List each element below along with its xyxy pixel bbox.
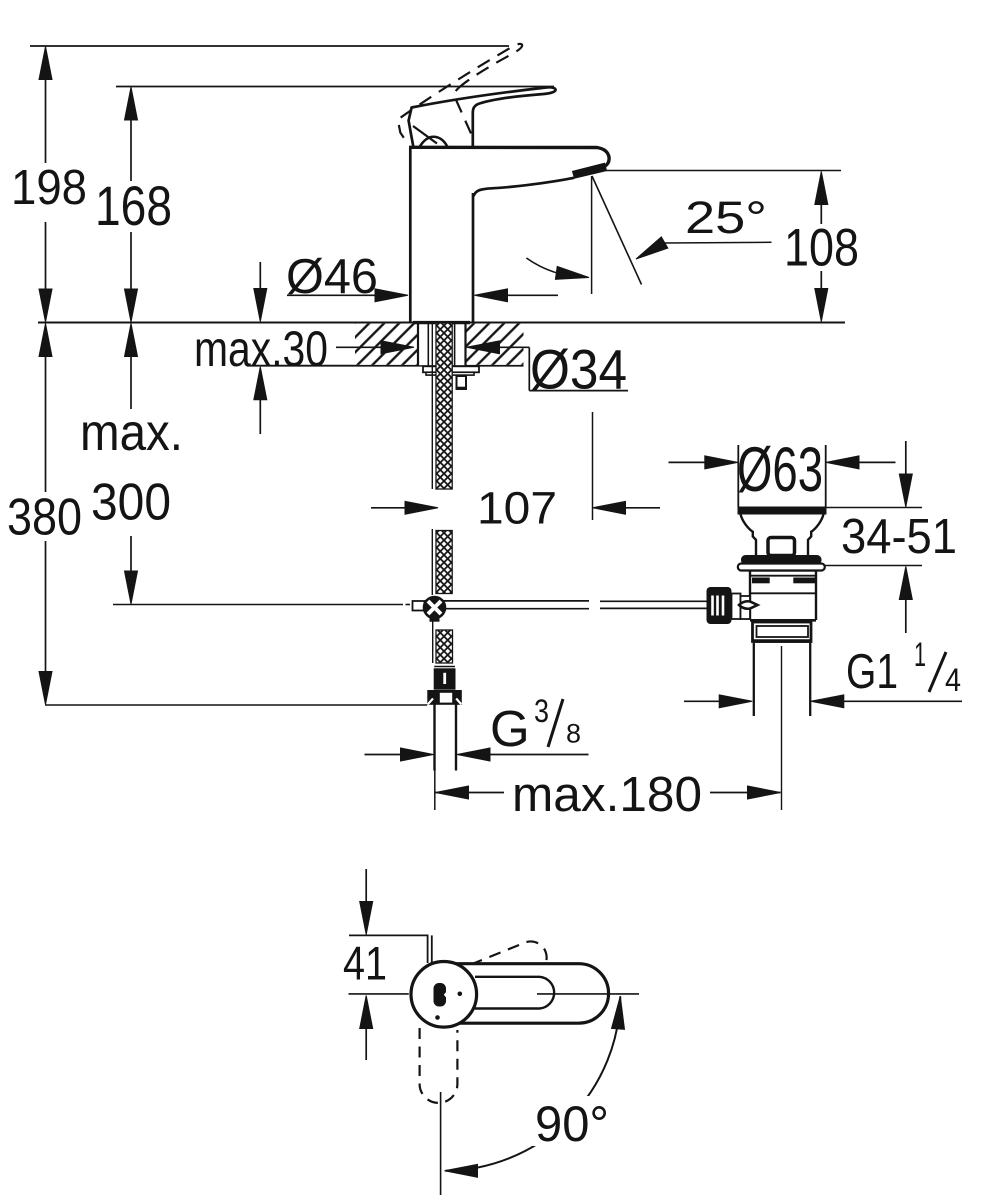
hose ball joint	[424, 597, 446, 619]
top view: spout tab	[427, 935, 429, 963]
dimension 168 vertical line	[130, 90, 132, 181]
washer plate under deck	[423, 366, 479, 372]
svg-text:90°: 90°	[535, 1096, 609, 1152]
dimension 107	[371, 507, 408, 509]
dimension 34-51 vertical line and reference lines	[905, 441, 907, 476]
faucet body left edge	[409, 148, 412, 322]
svg-text:25°: 25°	[685, 192, 767, 243]
top view: horizontal center line	[349, 993, 409, 995]
svg-text:max.: max.	[80, 404, 183, 462]
svg-text:8: 8	[566, 719, 581, 749]
hose end tube	[433, 705, 435, 771]
washer plate lower	[426, 372, 474, 375]
dimension G1 1/4	[684, 700, 723, 702]
25 degree arc	[526, 258, 584, 277]
dimension 380 vertical line	[45, 326, 47, 492]
reference line top (198 extension)	[30, 45, 509, 47]
svg-text:1: 1	[914, 636, 926, 674]
svg-text:G: G	[490, 700, 530, 757]
dimension max.300 vertical line	[130, 326, 132, 409]
mounting shank inner wall right	[454, 323, 456, 366]
hose crimp collar	[434, 669, 455, 689]
plug neck	[741, 514, 757, 555]
deck hatching right of faucet	[466, 324, 524, 365]
top view: vertical center line	[440, 1092, 442, 1195]
lever raised neck line (dashed, over blade)	[452, 88, 477, 133]
supply hose braid upper segment	[436, 323, 452, 489]
25 degree vertical reference	[591, 176, 593, 294]
top view: lever raised dashed (rotated)	[452, 937, 551, 1002]
tailpiece block (G1 1/4)	[753, 622, 812, 642]
svg-text:Ø63: Ø63	[737, 435, 823, 505]
dimension Ø46	[287, 294, 379, 296]
svg-text:380: 380	[7, 489, 82, 547]
mounting shank white column	[418, 324, 466, 366]
pop-up rod horizontal lines	[425, 600, 590, 602]
mounting stud below washer	[457, 376, 467, 389]
svg-text:168: 168	[95, 174, 172, 237]
dimension 198 vertical line	[45, 49, 47, 163]
top view: 41 dimension	[365, 869, 367, 903]
svg-text:107: 107	[477, 483, 557, 534]
svg-text:max.30: max.30	[194, 321, 328, 377]
waste flange ring	[738, 564, 825, 571]
svg-text:108: 108	[784, 219, 859, 278]
top view: cartridge mark	[434, 983, 447, 1007]
pivot rod spearhead	[739, 601, 758, 608]
reference line (168 extension)	[116, 86, 554, 88]
mounting shank inner wall left	[427, 323, 429, 366]
svg-text:max.180: max.180	[512, 768, 702, 822]
faucet lever solid	[409, 87, 556, 147]
tailpiece center line	[781, 646, 783, 810]
overflow slots	[752, 578, 770, 584]
waste body upper band	[750, 570, 816, 572]
dimension G3/8	[365, 754, 405, 756]
tailpiece pipe walls	[753, 643, 755, 716]
svg-text:Ø34: Ø34	[530, 338, 627, 401]
380 bottom reference line	[45, 704, 427, 706]
faucet body top line	[409, 147, 609, 166]
dimension 108 vertical line	[820, 177, 822, 224]
25 degree leader line	[664, 241, 772, 244]
label 380	[4, 493, 85, 539]
mounting shank left wall	[417, 323, 419, 366]
svg-text:41: 41	[343, 937, 387, 990]
supply hose outer line left (upper)	[431, 323, 433, 490]
25 degree slant line	[592, 176, 642, 285]
pop-up rod horizontal (left of ball)	[413, 601, 425, 611]
waste body walls	[749, 570, 751, 620]
top view: lever outline	[455, 964, 609, 1024]
svg-text:G1: G1	[846, 645, 898, 699]
pivot joint washer	[732, 594, 741, 620]
pop-up waste plug cap (Ø63)	[737, 445, 739, 507]
max.300 bottom reference line	[113, 604, 403, 606]
90 degree arc	[446, 997, 621, 1171]
spout outlet blade	[573, 163, 607, 178]
top view: lever down dashed capsule	[420, 1028, 458, 1103]
top view: upper reference line	[349, 934, 429, 936]
plug center square knob	[768, 538, 795, 556]
dimension Ø63	[669, 461, 709, 463]
deck bottom line	[247, 365, 524, 367]
reference line (108 top, from spout)	[606, 170, 841, 172]
waste body bottom edge	[750, 619, 816, 622]
label 300	[88, 478, 174, 524]
faucet body right edge	[472, 193, 475, 322]
svg-text:4: 4	[945, 662, 961, 698]
svg-text:34-51: 34-51	[841, 510, 957, 564]
svg-text:Ø46: Ø46	[286, 250, 378, 304]
hose end nut G3/8	[428, 691, 462, 705]
top view: lever inner outline	[475, 977, 554, 1009]
label max.	[76, 412, 184, 454]
faucet lever raised (dashed outline)	[387, 43, 540, 144]
label 90 degrees	[527, 1096, 614, 1146]
faucet base on deck	[413, 321, 470, 324]
dimension Ø34 / max.30 leader	[336, 346, 384, 348]
pivot knurled nut	[707, 587, 732, 624]
top view: body circle	[411, 962, 477, 1028]
svg-text:3: 3	[534, 693, 549, 729]
supply hose braid middle segment	[431, 529, 433, 595]
deck top line	[38, 322, 845, 324]
spout underside	[473, 178, 574, 197]
svg-text:198: 198	[11, 161, 87, 215]
hose extension line for max.180	[434, 767, 436, 810]
dimension max.30 vertical line	[259, 262, 261, 290]
mounting shank right wall	[464, 323, 466, 366]
dimension max.180	[436, 792, 781, 794]
lever pivot dome	[420, 137, 448, 147]
supply hose braid lower segment	[432, 622, 434, 664]
deck hatching left of faucet	[355, 324, 418, 365]
waste flange seal (dark)	[741, 555, 822, 565]
svg-text:300: 300	[91, 474, 171, 532]
lever head crease	[413, 126, 437, 144]
